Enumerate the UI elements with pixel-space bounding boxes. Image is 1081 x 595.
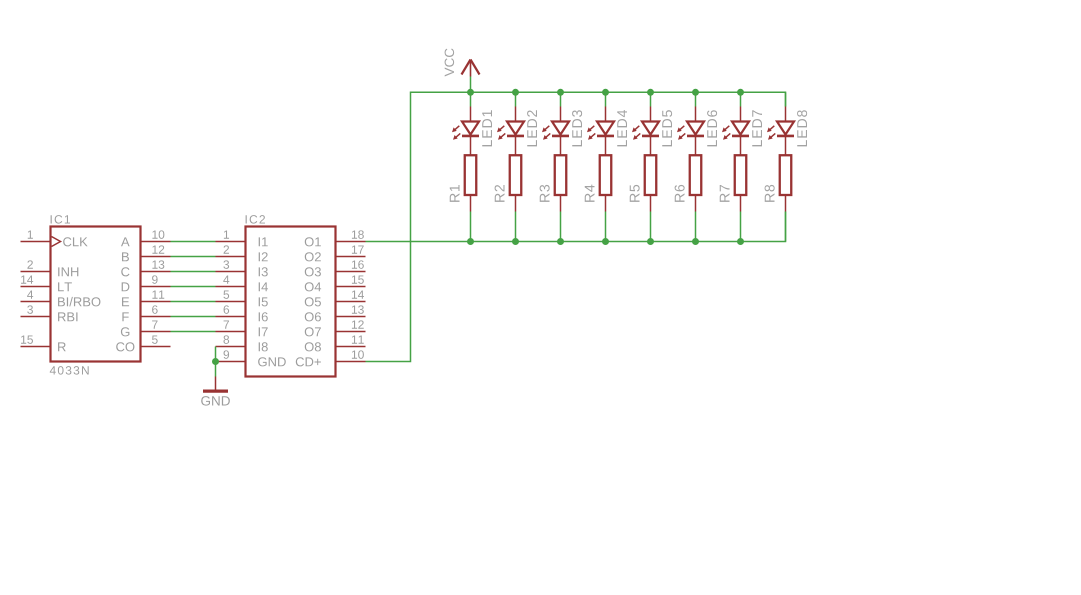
LED6 name label — [707, 110, 717, 146]
LED7 name label — [752, 110, 762, 146]
IC1 pin 12 B — [122, 245, 170, 261]
IC2 pin 1 I1 — [216, 230, 268, 246]
wire net C (IC1 to IC2 I3) — [171, 271, 216, 273]
junction top bus col 6 — [692, 89, 699, 96]
resistor R7 — [735, 155, 747, 211]
wire top bus to LED6 — [695, 92, 697, 106]
VCC label — [445, 49, 455, 77]
IC1 value label 4033N — [50, 366, 89, 375]
wire top bus to LED3 — [560, 92, 562, 106]
IC2 pin 14 O5 — [305, 290, 366, 306]
LED3 name label — [572, 110, 582, 146]
wire R8 to bottom bus — [785, 212, 787, 242]
VCC symbol (arrow) — [462, 60, 480, 77]
IC1 pin 7 G — [121, 320, 171, 336]
LED4 name label — [617, 110, 627, 146]
resistor R8 — [780, 155, 792, 211]
wire top bus to LED8 — [785, 92, 787, 106]
IC2 pin 4 I4 — [216, 275, 268, 291]
wire top bus to LED7 — [740, 92, 742, 106]
wire R3 to bottom bus — [560, 212, 562, 242]
junction top bus col 7 — [737, 89, 744, 96]
R8 name label — [765, 185, 775, 202]
LED3 — [542, 107, 569, 156]
wire R4 to bottom bus — [605, 212, 607, 242]
junction top bus col 1 — [467, 89, 474, 96]
IC1 pin 10 A — [121, 230, 171, 246]
junction bottom bus col 7 — [737, 238, 744, 245]
junction top bus col 3 — [557, 89, 564, 96]
LED7 — [722, 107, 749, 156]
junction bottom bus col 1 — [467, 238, 474, 245]
junction top bus col 4 — [602, 89, 609, 96]
LED8 name label — [797, 110, 807, 146]
R1 name label — [450, 185, 460, 202]
R3 name label — [540, 185, 550, 202]
wire R6 to bottom bus — [695, 212, 697, 242]
IC1 pin 11 E — [122, 290, 170, 306]
R5 name label — [630, 185, 640, 202]
junction top bus col 5 — [647, 89, 654, 96]
wire bottom bus (O1 pin 18 to resistor bottoms, riser to R8) — [366, 212, 786, 242]
IC2 pin 3 I3 — [216, 260, 268, 276]
wire GND net vertical (I8/GND pins to ground) — [215, 347, 217, 377]
R6 name label — [675, 185, 685, 202]
junction bottom bus col 6 — [692, 238, 699, 245]
IC1 pin 15 R — [21, 335, 66, 351]
IC1 name label — [51, 215, 70, 224]
wire VCC top bus (CD+ pin 10 up and across to LED8) — [366, 92, 786, 361]
R2 name label — [495, 185, 505, 202]
wire net B (IC1 to IC2 I2) — [171, 256, 216, 258]
resistor R4 — [600, 155, 612, 211]
IC2 body (driver) — [246, 227, 336, 377]
IC1 pin 1 CLK — [21, 230, 88, 246]
junction bottom bus col 5 — [647, 238, 654, 245]
IC2 pin 13 O6 — [305, 305, 366, 321]
wire R1 to bottom bus — [470, 212, 472, 242]
junction GND net — [212, 358, 219, 365]
junction bottom bus col 3 — [557, 238, 564, 245]
resistor R2 — [510, 155, 522, 211]
LED1 name label — [482, 110, 492, 146]
resistor R1 — [465, 155, 477, 211]
IC1 pin 5 CO — [116, 335, 170, 351]
IC2 pin 7 I7 — [216, 320, 268, 336]
resistor R6 — [690, 155, 702, 211]
IC1 pin 13 C — [121, 260, 170, 276]
R4 name label — [585, 185, 595, 202]
resistor R3 — [555, 155, 567, 211]
wire net F (IC1 to IC2 I6) — [171, 316, 216, 318]
IC2 pin 6 I6 — [216, 305, 268, 321]
wire net D (IC1 to IC2 I4) — [171, 286, 216, 288]
wire R7 to bottom bus — [740, 212, 742, 242]
wire top bus to LED5 — [650, 92, 652, 106]
IC1 pin 2 INH — [21, 260, 79, 276]
IC2 pin 2 I2 — [216, 245, 268, 261]
LED1 — [452, 107, 479, 156]
LED5 — [632, 107, 659, 156]
wire net G (IC1 to IC2 I7) — [171, 331, 216, 333]
wire VCC to top bus — [470, 77, 472, 93]
IC2 pin 9 GND — [216, 350, 286, 366]
IC2 pin 17 O2 — [305, 245, 366, 261]
junction bottom bus col 4 — [602, 238, 609, 245]
GND label — [201, 396, 230, 406]
LED5 name label — [662, 110, 672, 146]
IC1 body (4033N counter) — [51, 227, 141, 362]
LED6 — [677, 107, 704, 156]
IC2 pin 8 I8 — [216, 335, 268, 351]
IC1 pin 9 D — [122, 275, 171, 291]
junction top bus col 2 — [512, 89, 519, 96]
IC1 pin 6 F — [122, 305, 170, 321]
IC2 pin 18 O1 — [305, 230, 366, 246]
IC1 pin 3 RBI — [21, 305, 78, 321]
R7 name label — [720, 185, 730, 202]
IC1 pin 4 BI/RBO — [21, 290, 101, 306]
IC2 pin 10 CD+ — [296, 350, 366, 366]
junction bottom bus col 2 — [512, 238, 519, 245]
wire net E (IC1 to IC2 I5) — [171, 301, 216, 303]
ground symbol — [203, 377, 228, 392]
LED8 — [767, 107, 794, 156]
resistor R5 — [645, 155, 657, 211]
IC2 pin 16 O3 — [305, 260, 366, 276]
wire R5 to bottom bus — [650, 212, 652, 242]
wire net A (IC1 to IC2 I1) — [171, 241, 216, 243]
LED2 — [497, 107, 524, 156]
IC2 name label — [246, 215, 265, 224]
IC1 pin 14 LT — [21, 275, 72, 291]
IC2 pin 15 O4 — [305, 275, 366, 291]
IC2 pin 5 I5 — [216, 290, 268, 306]
LED4 — [587, 107, 614, 156]
LED2 name label — [527, 110, 537, 146]
wire R2 to bottom bus — [515, 212, 517, 242]
IC2 pin 11 O8 — [305, 335, 366, 351]
wire top bus to LED1 — [470, 92, 472, 106]
IC2 pin 12 O7 — [305, 320, 366, 336]
wire top bus to LED2 — [515, 92, 517, 106]
wire top bus to LED4 — [605, 92, 607, 106]
